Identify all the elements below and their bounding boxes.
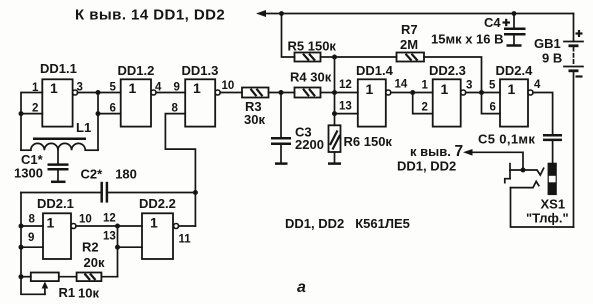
svg-text:2: 2 [422,102,428,114]
gate DD2.2 [142,213,179,259]
resistor R7 [397,53,425,62]
label: К выв. 14 DD1, DD2 [75,7,225,24]
polarity plus GB1 [576,30,583,37]
svg-text:DD1.2: DD1.2 [118,63,155,78]
label L1 [76,120,91,135]
svg-text:DD1, DD2К561ЛЕ5: DD1, DD2К561ЛЕ5 [285,216,410,231]
wire L1 centre tap [57,150,59,164]
wire pin 6 stub [98,113,121,115]
wire node to C3 [280,93,282,139]
node junction top rail to R5 [279,11,284,16]
resistor R5 [295,53,321,62]
label 20к [84,255,105,270]
battery GB1 [564,42,583,73]
svg-text:9: 9 [174,82,180,94]
capacitor C1 [48,165,69,182]
svg-text:6: 6 [110,102,116,114]
svg-text:1300: 1300 [14,166,43,181]
wire DD1.4 out to DD2.3 [391,92,433,94]
ground C3 [275,162,288,165]
label 2200 [295,137,324,152]
svg-text:10к: 10к [78,286,99,301]
pin 5 [110,82,117,94]
node junction pin 8 DD2.1 [19,224,24,229]
jack XS1 sleeve contact [505,164,510,183]
svg-text:14: 14 [395,79,408,91]
wire R2 to pin 13 node [101,276,117,278]
pin 10 [222,80,235,92]
svg-text:R2: R2 [82,240,99,255]
node junction out1 [96,90,101,95]
capacitor C2 [102,182,107,203]
svg-text:11: 11 [179,234,192,246]
capacitor C5 [543,135,562,163]
capacitor C3 [271,138,291,163]
pin 9 [28,232,34,244]
pin 2 [422,102,428,114]
pin 14 [395,79,408,91]
wire C2 left [21,192,102,194]
gate DD2.4 [500,79,533,126]
node junction pin12 lower [115,224,120,229]
wire R5 to node [321,56,335,58]
svg-text:12: 12 [103,213,116,225]
label R1 [59,285,76,300]
svg-text:XS1: XS1 [541,197,566,212]
pin 5 [489,80,496,92]
label XS1 [541,197,566,212]
wire DD2.4 out to C5 [533,93,553,136]
potentiometer R1 [31,273,59,295]
svg-text:13: 13 [339,101,352,113]
node junction pin12 [332,90,337,95]
plug XS1 [548,163,557,195]
svg-text:DD2.4: DD2.4 [496,63,534,78]
svg-text:3: 3 [466,80,472,92]
svg-text:GB1: GB1 [534,36,561,51]
label DD1, DD2 [397,159,456,174]
svg-text:2200: 2200 [295,137,324,152]
polarity minus GB1 [576,75,583,77]
pin 2 [32,102,38,114]
label R6 150к [344,134,393,149]
pin 12 [103,213,116,225]
wire pin 8 stub [21,225,43,227]
polarity plus C4 [503,19,511,26]
wire DD1.2 out to DD1.3 [156,92,185,94]
label DD1.1 [40,61,77,76]
svg-text:5: 5 [489,80,496,92]
label 2M [400,37,418,52]
wire R2 to pin13 node [117,226,119,277]
wire to pin 7 with arrow [463,149,523,170]
wire R7 to DD2.3 output node [424,57,482,93]
svg-text:C5 0,1мк: C5 0,1мк [478,132,535,147]
svg-text:1: 1 [150,215,158,231]
wire DD2.2 out up [179,225,196,227]
svg-text:1: 1 [508,81,516,97]
wire DD2.1 out to DD2.2 [76,225,142,227]
label DD2.1 [37,196,74,211]
svg-text:DD2.3: DD2.3 [429,63,466,78]
pin 8 [172,102,179,114]
wire DD1.1 input loop [21,93,42,151]
wire DD2.3 out to DD2.4 [466,92,500,94]
wire pin 8 feedback [165,114,195,226]
svg-text:1: 1 [193,80,201,96]
svg-text:30к: 30к [244,112,265,127]
svg-text:DD1.3: DD1.3 [182,63,219,78]
wire DD1.1 out to DD1.2 [78,92,121,94]
svg-text:9 В: 9 В [542,51,562,66]
label C4 [484,15,501,30]
svg-text:1: 1 [129,80,137,96]
svg-text:C2*180: C2*180 [81,167,137,182]
pin 6 [490,102,496,114]
node junction C2 right [193,190,198,195]
node junction pin 9 DD2.1 [19,245,24,250]
svg-text:К выв. 14 DD1, DD2: К выв. 14 DD1, DD2 [75,7,225,24]
svg-text:R5 150к: R5 150к [288,39,337,54]
pin 3 [466,80,472,92]
label DD2.3 [429,63,466,78]
label C1* [21,152,44,167]
svg-text:2: 2 [32,102,38,114]
label а [297,279,306,296]
node junction jack common [521,168,526,173]
svg-text:"Тлф.": "Тлф." [526,211,569,226]
svg-text:15мк x 16 В: 15мк x 16 В [431,32,504,47]
wire pin 6 jog [482,93,501,114]
node junction pin13 lower [115,245,120,250]
wire pin 13 stub [118,246,143,248]
svg-text:13: 13 [103,231,116,243]
svg-text:9: 9 [28,232,34,244]
pin 11 [179,234,192,246]
label DD1.4 [356,63,394,78]
svg-text:20к: 20к [84,255,105,270]
gate DD1.2 [121,79,156,126]
node junction pin5/pin6/R7 [479,90,484,95]
node junction R3/R4/C3 [279,90,284,95]
label R4 30к [290,70,332,85]
ground C4 [507,44,522,47]
gate DD2.3 [433,79,466,126]
wire lower contact to battery minus [511,188,574,227]
capacitor C4 [504,29,526,46]
label C3 [295,125,312,140]
pin 4 [534,79,541,91]
gate DD1.4 [358,79,391,126]
svg-text:1: 1 [47,215,55,231]
wire pin 2 stub [21,113,42,115]
label 10к [78,286,99,301]
pin 8 [29,214,36,226]
resistor R6 [329,125,341,163]
label R3 [245,99,262,114]
wire pin 12 stub [335,92,358,94]
svg-text:6: 6 [490,102,496,114]
svg-text:8: 8 [29,214,36,226]
wire pin 9 stub [21,246,43,248]
pin 12 [339,79,352,91]
svg-text:R4 30к: R4 30к [290,70,332,85]
gate DD1.1 [42,79,77,126]
label DD1.2 [118,63,155,78]
label DD1.3 [182,63,219,78]
label GB1 [534,36,561,51]
resistor R2 [77,273,102,282]
wire right rail to battery [573,14,575,42]
wire rail to R5 [282,14,295,58]
svg-text:R7: R7 [401,22,418,37]
wire down to L1 right [97,93,99,151]
svg-text:1: 1 [366,81,374,97]
label R5 150к [288,39,337,54]
jack contact upper [510,168,544,175]
wire pin 13 stub [335,113,358,115]
node junction pin1/pin2 [410,90,415,95]
wire R4 to rail [321,92,335,94]
wire lower left rail [21,193,45,295]
label DD2.2 [139,196,176,211]
label DD2.4 [496,63,534,78]
wire DD1.3 out to R3 [220,92,242,94]
resistor R3 [242,88,269,98]
svg-text:DD1.1: DD1.1 [40,61,77,76]
label R7 [401,22,418,37]
svg-text:2М: 2М [400,37,418,52]
svg-text:DD1, DD2: DD1, DD2 [397,159,456,174]
wire C2 right [107,192,195,194]
label C5 0,1мк [478,132,535,147]
node junction pin2 [19,111,24,116]
wire R1 to R2 [59,276,77,278]
svg-text:L1: L1 [76,120,91,135]
pin 4 [155,82,162,94]
svg-text:DD2.2: DD2.2 [139,196,176,211]
wire mid rail R5 to R6 [334,57,336,125]
svg-text:C4: C4 [484,15,501,30]
pin 9 [174,82,180,94]
svg-text:к выв. 7: к выв. 7 [410,143,463,160]
label 30к R3 [244,112,265,127]
label 9 В [542,51,562,66]
node junction pin13 [332,111,337,116]
label 1300 [14,166,43,181]
gate DD2.1 [43,213,76,259]
label Тлф [526,211,569,226]
jack contact lower [511,181,539,187]
svg-text:10: 10 [222,80,235,92]
svg-text:а: а [297,279,306,296]
ground R6 [328,162,341,165]
label DD1, DD2 К561ЛЕ5 [285,216,410,231]
svg-text:1: 1 [50,80,58,96]
wire node to R7 [335,56,397,58]
gate DD1.3 [185,79,220,126]
svg-text:12: 12 [339,79,352,91]
pin 10 [79,214,92,226]
svg-text:DD2.1: DD2.1 [37,196,74,211]
node junction R5/R7/rail [332,55,337,60]
svg-text:DD1.4: DD1.4 [356,63,394,78]
svg-text:1: 1 [441,81,449,97]
label 15мк x 16 В [431,32,504,47]
svg-text:8: 8 [172,102,179,114]
label C2* 180 [81,167,137,182]
svg-text:R6 150к: R6 150к [344,134,393,149]
pin 13 [103,231,116,243]
wire top supply rail with left arrow [256,10,574,17]
pin 13 [339,101,352,113]
node junction R1 left [19,274,24,279]
resistor R4 [295,88,321,98]
svg-text:4: 4 [534,79,541,91]
svg-text:5: 5 [110,82,117,94]
wire rail to R1 [21,276,31,278]
pin 6 [110,102,116,114]
capacitor C4 positive lead [512,11,517,28]
node junction pin6 [96,111,101,116]
wire R3 to node [269,92,295,94]
svg-text:R1: R1 [59,285,76,300]
svg-text:1: 1 [422,80,429,92]
wire pin 2 jog [413,93,433,114]
ground C1 [51,181,66,184]
pin 1 [32,82,39,94]
label к выв. 7 [410,143,463,160]
svg-text:10: 10 [79,214,92,226]
pin 1 [422,80,429,92]
inductor L1 [21,139,98,150]
label R2 [82,240,99,255]
pin 3 [77,82,83,94]
wire battery negative down right rail [573,72,575,227]
